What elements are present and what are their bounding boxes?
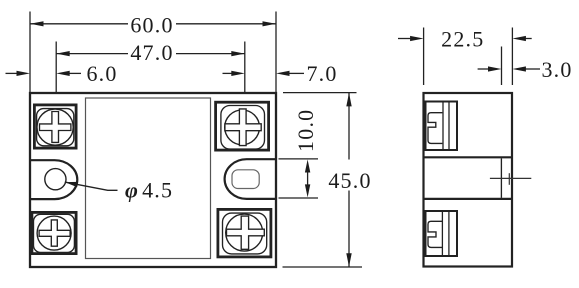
side view lower block inner line 1	[441, 212, 443, 256]
dimension 3.0 right outside arrow	[525, 68, 540, 70]
side view lower block inner line 2	[448, 212, 450, 256]
dimension 22.5 left outside arrow	[398, 38, 411, 40]
terminal BR screw head circle	[226, 214, 263, 251]
extension line 22.5 right	[511, 28, 513, 86]
side view body outline	[424, 93, 513, 267]
extension tick oval top	[279, 158, 319, 160]
terminal TL screw cross slot	[40, 112, 71, 143]
terminal BR outer square	[218, 209, 271, 257]
arrowhead 60.0 right	[263, 21, 277, 26]
arrowhead 10.0 up	[305, 160, 310, 173]
terminal TL outer square	[34, 105, 76, 148]
side view upper terminal block	[426, 102, 458, 151]
side view upper block inner line 2	[448, 102, 450, 150]
mounting hole circle	[45, 169, 66, 190]
arrowhead 45.0 up	[346, 93, 351, 107]
svg-text:47.0: 47.0	[130, 40, 173, 65]
dimension 45.0 line	[348, 93, 350, 160]
side view upper clamp profile	[428, 113, 442, 144]
side view center mark horizontal	[490, 177, 531, 179]
terminal TR screw cross slot	[225, 109, 261, 146]
terminal BL outer square	[32, 212, 76, 253]
terminal BL rounded housing	[34, 214, 75, 252]
side view middle band top line	[424, 156, 513, 158]
extension tick body bottom right	[283, 266, 363, 268]
arrowhead 47.0 right	[231, 51, 245, 56]
terminal BR rounded housing	[223, 213, 267, 254]
terminal BL screw head circle	[37, 216, 71, 250]
arrowhead 47.0 left	[56, 51, 69, 56]
terminal BL screw cross slot	[39, 220, 70, 246]
dimension line 47.0	[56, 53, 245, 55]
dimension 10.0 line	[307, 166, 309, 191]
svg-text:7.0: 7.0	[306, 61, 337, 86]
terminal TR outer square	[216, 102, 269, 150]
dimension 6.0 left outside arrow	[6, 72, 18, 74]
leader arrowhead	[65, 182, 78, 187]
svg-text:φ4.5: φ4.5	[125, 178, 173, 203]
dimension 7.0 right outside arrow	[289, 72, 304, 74]
extension line 60.0 left	[29, 12, 31, 93]
side view lower terminal block	[426, 211, 458, 256]
terminal BR screw cross slot	[227, 216, 265, 249]
left oval cutout	[31, 160, 77, 199]
arrowhead 60.0 left	[30, 21, 44, 26]
right oval rounded slot	[232, 170, 259, 189]
extension line 47.0 left	[55, 42, 57, 93]
extension line 22.5 left	[423, 28, 425, 86]
arrowhead 10.0 down	[305, 184, 310, 197]
front view inner lid rectangle	[86, 98, 211, 259]
extension line 47.0 right	[244, 42, 246, 93]
svg-text:6.0: 6.0	[86, 61, 117, 86]
side view upper block inner line 1	[442, 102, 444, 150]
leader line for hole diameter	[65, 182, 118, 190]
right oval cutout	[225, 159, 275, 199]
dimension line 60.0	[30, 23, 276, 25]
extension line 60.0 right	[275, 12, 277, 93]
dimension 6.0 right outside arrow	[69, 72, 81, 74]
terminal TR rounded housing	[221, 106, 265, 150]
terminal TL screw head circle	[37, 109, 73, 145]
extension line 3.0 left	[501, 47, 503, 86]
side view middle band bottom line	[424, 198, 513, 200]
arrowhead 45.0 down	[346, 253, 351, 266]
extension tick oval bottom	[279, 197, 319, 199]
side view center mark vertical	[508, 173, 510, 185]
terminal TL rounded housing	[37, 109, 74, 146]
dimension 3.0 left outside arrow	[478, 68, 489, 70]
terminal TR screw head circle	[225, 110, 260, 145]
svg-text:10.0: 10.0	[293, 109, 318, 152]
extension tick body top right	[283, 92, 357, 94]
svg-text:3.0: 3.0	[541, 57, 572, 82]
front view body outline	[30, 93, 276, 267]
side view base plate inner edge	[500, 158, 502, 198]
dimension 22.5 right outside arrow	[525, 38, 532, 40]
svg-text:22.5: 22.5	[441, 27, 484, 52]
svg-text:60.0: 60.0	[130, 13, 173, 38]
dimension 7.0 left outside arrow	[223, 72, 233, 74]
svg-text:45.0: 45.0	[328, 168, 371, 193]
side view lower clamp profile	[428, 221, 442, 247]
